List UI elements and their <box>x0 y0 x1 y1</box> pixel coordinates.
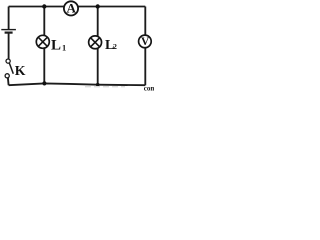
svg-text:2: 2 <box>113 42 117 51</box>
svg-text:A: A <box>67 0 77 15</box>
svg-text:K: K <box>15 63 26 78</box>
svg-text:com: com <box>144 84 154 91</box>
svg-text:1: 1 <box>62 43 66 52</box>
svg-text:V: V <box>141 36 150 48</box>
svg-text:L: L <box>51 37 61 53</box>
